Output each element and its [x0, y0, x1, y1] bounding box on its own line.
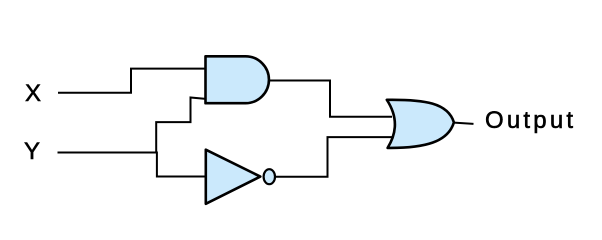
- svg-text:Output: Output: [485, 107, 576, 134]
- svg-text:Y: Y: [24, 138, 40, 165]
- svg-text:X: X: [25, 80, 41, 107]
